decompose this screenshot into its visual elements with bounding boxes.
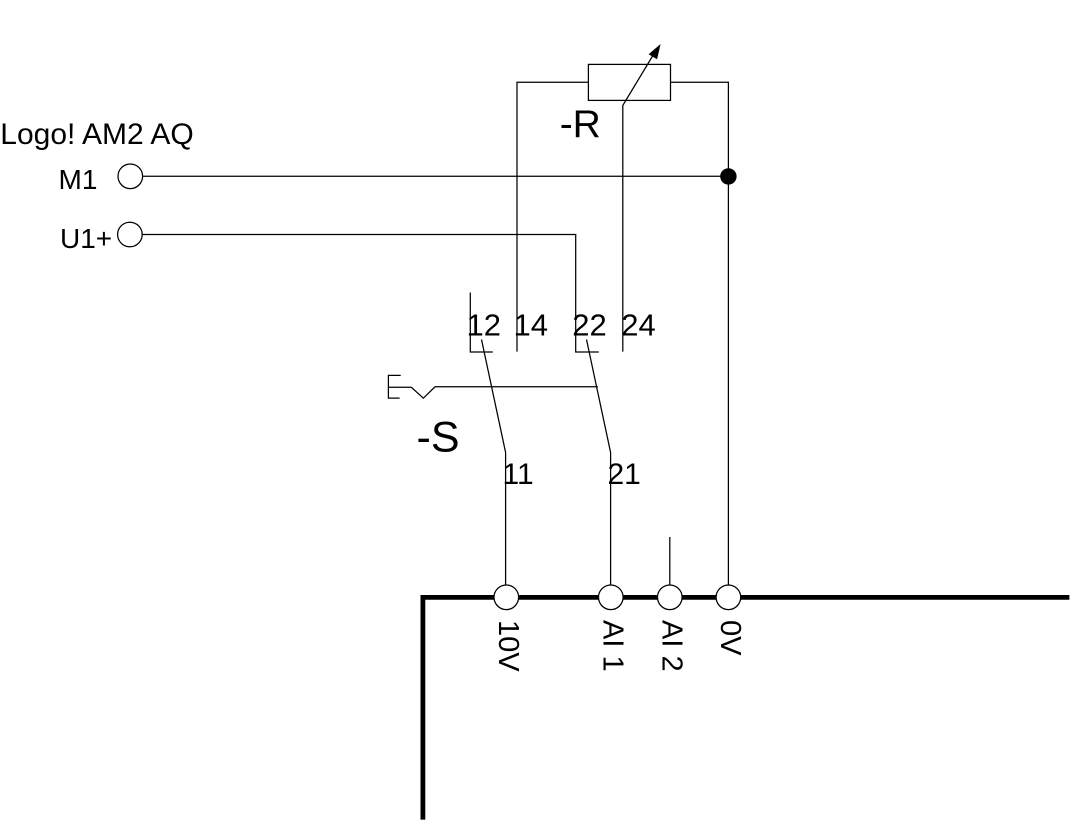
svg-text:10V: 10V	[492, 620, 524, 672]
svg-text:24: 24	[621, 307, 655, 342]
contact 12 seat	[470, 293, 493, 353]
potentiometer arrow head	[649, 44, 661, 59]
svg-text:AI 2: AI 2	[656, 620, 688, 672]
svg-text:0V: 0V	[714, 620, 746, 656]
switch blade 11-12	[482, 340, 506, 586]
device edge horizontal	[421, 595, 1070, 600]
svg-text:Logo! AM2 AQ: Logo! AM2 AQ	[0, 118, 193, 151]
terminal circle AI2	[658, 585, 683, 610]
terminal circle AI1	[599, 585, 624, 610]
svg-text:21: 21	[608, 458, 641, 491]
wire AI2 stub	[669, 537, 671, 585]
svg-text:11: 11	[503, 458, 534, 491]
device edge vertical	[420, 595, 425, 820]
svg-text:-S: -S	[417, 414, 460, 462]
junction dot node M1/0V	[720, 168, 736, 184]
svg-text:M1: M1	[59, 164, 98, 195]
potentiometer wiper line to contact 24	[623, 55, 654, 352]
svg-text:U1+: U1+	[60, 223, 112, 254]
wire M1 horizontal	[143, 175, 729, 177]
switch actuator bracket	[388, 375, 400, 398]
terminal circle M1	[118, 164, 143, 189]
svg-text:AI 1: AI 1	[597, 620, 629, 672]
svg-text:-R: -R	[560, 103, 601, 146]
terminal circle 10V	[494, 585, 519, 610]
potentiometer R body	[588, 64, 670, 100]
switch blade 21-22	[587, 340, 611, 586]
svg-text:14: 14	[514, 307, 548, 342]
wire U1+ to contact 22	[142, 235, 599, 353]
wire resistor right to 0V	[671, 82, 729, 585]
svg-text:22: 22	[572, 307, 606, 342]
terminal circle U1+	[118, 222, 143, 247]
wire resistor left to contact 14	[517, 82, 588, 351]
switch actuator linkage	[388, 387, 598, 398]
svg-text:12: 12	[467, 307, 501, 342]
terminal circle 0V	[716, 585, 741, 610]
